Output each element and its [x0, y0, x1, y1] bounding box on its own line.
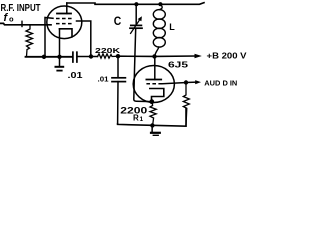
node dot C tap on top rail: [134, 2, 138, 6]
svg-text:R: R: [133, 114, 139, 123]
node dot grid-ground junction: [42, 55, 46, 59]
node dot cathode-ground junction: [57, 55, 61, 59]
svg-text:AUD D IN: AUD D IN: [204, 78, 237, 87]
svg-text:220K: 220K: [95, 46, 121, 55]
resistor R1 (cathode bias zigzag): [150, 102, 156, 127]
inductor L loop 3: [153, 28, 165, 38]
wire audio input line: [186, 81, 196, 83]
node dot plate/L junction: [152, 54, 156, 58]
svg-text:L: L: [169, 22, 175, 32]
node dot audio junction: [184, 80, 188, 84]
svg-text:.01: .01: [98, 76, 109, 83]
ground symbol 2 stem: [151, 125, 153, 131]
svg-text:6J5: 6J5: [168, 59, 188, 69]
wire grounded-grid lead (vertical x45 with top bend to tube): [45, 18, 53, 57]
tube V1 grid row 1 (dashes): [56, 18, 72, 20]
tube V2 6J5 envelope: [133, 66, 174, 103]
capacitor C2 plate upper: [112, 77, 125, 79]
wire RF input line: [0, 23, 51, 24]
tube V2 plate lead from B+ rail: [154, 56, 156, 79]
tube V1 plate bar: [57, 13, 71, 15]
tube V2 grid (dashes): [146, 83, 162, 85]
capacitor C arrow (variable): [131, 19, 141, 34]
tube V2 cathode fold: [150, 89, 164, 102]
B+ arrowhead: [195, 54, 202, 58]
tube V2 plate bar: [146, 79, 161, 81]
capacitor C1 .01 series plates: [72, 52, 74, 62]
ground symbol 2 bars: [151, 132, 160, 134]
node dot L tap on top rail: [158, 2, 162, 6]
capacitor C (variable) top lead: [135, 4, 137, 24]
tube V1 grid row 2 (dashes): [56, 23, 72, 25]
svg-text:1: 1: [140, 116, 144, 123]
capacitor C plate upper: [131, 24, 142, 26]
ground symbol 1 bars: [56, 66, 64, 68]
node dot R1-ground junction: [150, 123, 154, 127]
capacitor C2 .01 top lead: [117, 56, 119, 77]
inductor L loop 4: [153, 38, 165, 48]
tube V1 envelope: [47, 6, 82, 39]
inductor L bottom lead: [155, 47, 159, 56]
capacitor C plate lower: [130, 27, 142, 29]
node dot grid-bypass junction: [116, 54, 120, 58]
capacitor C2 plate lower: [112, 81, 125, 83]
wire left ground rail: [26, 56, 73, 58]
tube V2 grid lead to audio node: [163, 83, 186, 84]
wire V1 screen lead (right side): [77, 21, 91, 57]
wire B+ rail segment: [118, 55, 196, 57]
inductor L loop 2: [153, 19, 165, 29]
audio arrowhead: [195, 80, 201, 84]
wire screen node segment: [77, 56, 97, 58]
tube V1 plate lead to top rail: [66, 3, 68, 14]
svg-text:o: o: [9, 15, 14, 24]
node tick on input line: [21, 21, 23, 26]
inductor L lead from top rail: [160, 4, 163, 9]
resistor grid-leak (vertical zigzag): [26, 25, 33, 57]
wire bottom ground rail: [118, 108, 186, 126]
wire top rail: [67, 3, 204, 5]
capacitor C2 bottom lead to ground rail: [117, 82, 119, 124]
wire C bottom lead crossing B+ rail down to cathode node: [134, 28, 152, 101]
wire V1 cathode lead down to ground rail: [59, 29, 61, 57]
resistor 220K (horizontal zigzag): [98, 54, 119, 58]
ground symbol 1 stem: [59, 57, 61, 66]
svg-text:C: C: [114, 14, 122, 28]
tube V1 cathode bracket: [60, 29, 73, 37]
node dot screen junction: [89, 54, 93, 58]
inductor L loop 1: [153, 10, 165, 20]
node dot cathode junction: [149, 99, 154, 104]
resistor audio load (right vertical zigzag): [183, 83, 189, 127]
svg-text:+B 200 V: +B 200 V: [207, 50, 247, 60]
svg-text:.01: .01: [68, 71, 84, 80]
